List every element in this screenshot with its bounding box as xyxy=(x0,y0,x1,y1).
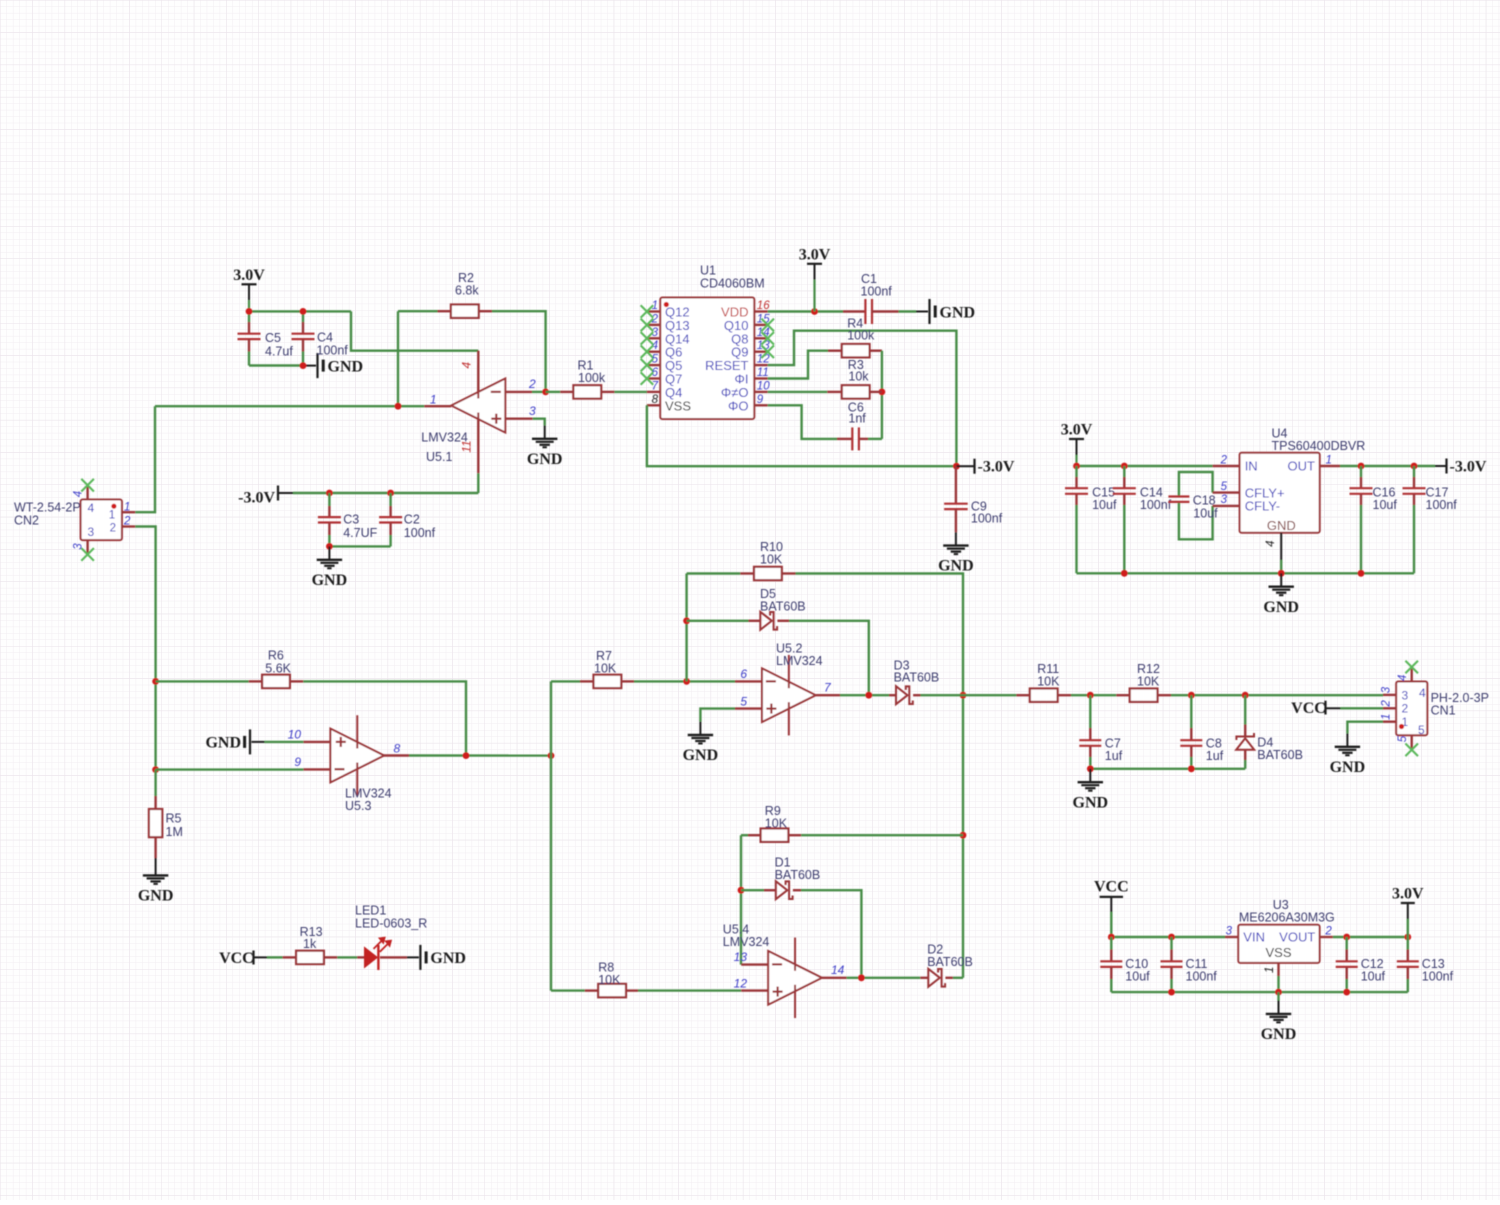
svg-text:100nf: 100nf xyxy=(1186,969,1218,983)
svg-text:VSS: VSS xyxy=(665,398,691,413)
svg-text:2: 2 xyxy=(1381,700,1393,708)
svg-text:2: 2 xyxy=(1220,454,1228,466)
svg-text:1M: 1M xyxy=(166,825,183,839)
svg-text:C3: C3 xyxy=(343,513,359,527)
svg-text:IN: IN xyxy=(1245,459,1258,474)
svg-text:C5: C5 xyxy=(265,331,281,345)
svg-text:1k: 1k xyxy=(303,937,317,951)
svg-text:-3.0V: -3.0V xyxy=(978,459,1015,476)
svg-text:C2: C2 xyxy=(404,513,420,527)
svg-text:BAT60B: BAT60B xyxy=(775,868,821,882)
svg-text:10uf: 10uf xyxy=(1092,498,1117,512)
svg-text:11: 11 xyxy=(757,367,769,379)
svg-text:8: 8 xyxy=(652,394,659,406)
svg-text:10K: 10K xyxy=(1137,674,1160,688)
svg-text:10K: 10K xyxy=(765,817,788,831)
svg-text:WT-2.54-2P: WT-2.54-2P xyxy=(14,501,81,515)
svg-text:100k: 100k xyxy=(847,329,875,343)
svg-text:GND: GND xyxy=(938,558,974,575)
svg-text:13: 13 xyxy=(734,950,748,964)
svg-text:4.7UF: 4.7UF xyxy=(343,526,377,540)
svg-text:16: 16 xyxy=(757,300,770,312)
svg-text:3: 3 xyxy=(73,543,85,550)
svg-text:ME6206A30M3G: ME6206A30M3G xyxy=(1239,911,1335,925)
svg-text:10uf: 10uf xyxy=(1373,498,1398,512)
svg-text:3.0V: 3.0V xyxy=(1061,422,1093,439)
svg-text:R6: R6 xyxy=(268,649,284,663)
svg-text:100nf: 100nf xyxy=(317,344,349,358)
svg-text:3: 3 xyxy=(1221,494,1228,506)
svg-text:10K: 10K xyxy=(598,973,621,987)
svg-text:-3.0V: -3.0V xyxy=(238,489,275,506)
svg-text:GND: GND xyxy=(1267,518,1296,533)
svg-text:1nf: 1nf xyxy=(848,411,866,425)
svg-text:10K: 10K xyxy=(760,553,783,567)
svg-text:100k: 100k xyxy=(578,371,606,385)
svg-text:BAT60B: BAT60B xyxy=(927,955,973,969)
svg-text:-3.0V: -3.0V xyxy=(1450,459,1487,476)
svg-text:C4: C4 xyxy=(317,331,333,345)
svg-text:10uf: 10uf xyxy=(1193,507,1218,521)
svg-text:2: 2 xyxy=(1402,702,1409,716)
svg-text:GND: GND xyxy=(328,358,364,375)
svg-text:VCC: VCC xyxy=(1094,879,1129,896)
svg-text:10K: 10K xyxy=(1037,674,1060,688)
svg-text:100nf: 100nf xyxy=(971,512,1003,526)
svg-text:U5.1: U5.1 xyxy=(426,450,452,464)
svg-text:100nf: 100nf xyxy=(404,526,436,540)
svg-text:3: 3 xyxy=(1402,688,1409,702)
svg-text:4.7uf: 4.7uf xyxy=(265,345,293,359)
svg-text:OUT: OUT xyxy=(1288,459,1316,474)
svg-text:1uf: 1uf xyxy=(1206,749,1224,763)
svg-text:VOUT: VOUT xyxy=(1279,929,1315,944)
svg-text:1: 1 xyxy=(1326,454,1332,466)
svg-text:1uf: 1uf xyxy=(1105,749,1123,763)
svg-text:10k: 10k xyxy=(848,370,869,384)
svg-text:GND: GND xyxy=(1263,599,1299,616)
svg-text:1: 1 xyxy=(1381,714,1393,720)
svg-text:TPS60400DBVR: TPS60400DBVR xyxy=(1272,439,1366,453)
svg-text:VCC: VCC xyxy=(1291,700,1326,717)
svg-text:CFLY-: CFLY- xyxy=(1245,499,1280,514)
svg-text:10uf: 10uf xyxy=(1125,969,1150,983)
svg-text:3.0V: 3.0V xyxy=(799,246,831,263)
svg-text:GND: GND xyxy=(683,747,719,764)
svg-text:LMV324: LMV324 xyxy=(723,935,770,949)
svg-text:3: 3 xyxy=(88,525,95,539)
svg-text:CN1: CN1 xyxy=(1431,703,1456,717)
svg-text:5: 5 xyxy=(1221,481,1228,493)
svg-text:4: 4 xyxy=(88,501,95,515)
svg-text:5: 5 xyxy=(1397,735,1409,742)
svg-text:GND: GND xyxy=(138,888,174,905)
svg-text:BAT60B: BAT60B xyxy=(894,671,940,685)
svg-text:2: 2 xyxy=(528,377,536,391)
svg-text:GND: GND xyxy=(527,451,563,468)
svg-text:U5.3: U5.3 xyxy=(345,799,371,813)
svg-text:LMV324: LMV324 xyxy=(776,654,823,668)
svg-text:7: 7 xyxy=(652,380,659,392)
svg-text:3: 3 xyxy=(529,404,536,418)
svg-text:4: 4 xyxy=(1419,686,1426,700)
svg-text:4: 4 xyxy=(460,362,474,369)
svg-text:C18: C18 xyxy=(1193,494,1216,508)
svg-text:1: 1 xyxy=(109,509,115,521)
svg-text:5: 5 xyxy=(1418,723,1425,737)
svg-text:R5: R5 xyxy=(166,812,182,826)
svg-text:GND: GND xyxy=(205,734,241,751)
svg-text:LED-0603_R: LED-0603_R xyxy=(355,916,427,930)
svg-text:VCC: VCC xyxy=(219,950,254,967)
svg-text:12: 12 xyxy=(734,977,748,991)
svg-text:GND: GND xyxy=(1330,759,1366,776)
svg-text:4: 4 xyxy=(1265,540,1277,546)
svg-text:ΦO: ΦO xyxy=(728,398,748,413)
svg-text:CN2: CN2 xyxy=(14,514,39,528)
svg-text:3.0V: 3.0V xyxy=(233,267,265,284)
svg-text:6: 6 xyxy=(740,667,747,681)
svg-text:10: 10 xyxy=(757,380,770,392)
svg-text:5: 5 xyxy=(740,694,747,708)
svg-text:GND: GND xyxy=(940,304,976,321)
svg-text:BAT60B: BAT60B xyxy=(1257,748,1303,762)
svg-text:100nf: 100nf xyxy=(1422,969,1454,983)
svg-text:9: 9 xyxy=(757,394,764,406)
svg-text:3: 3 xyxy=(1226,926,1233,938)
svg-text:GND: GND xyxy=(430,950,466,967)
svg-text:1: 1 xyxy=(430,393,437,407)
svg-text:2: 2 xyxy=(110,522,116,534)
svg-text:10K: 10K xyxy=(594,662,617,676)
svg-text:3.0V: 3.0V xyxy=(1392,886,1424,903)
svg-text:14: 14 xyxy=(831,963,845,977)
svg-text:100nf: 100nf xyxy=(1140,498,1172,512)
svg-text:1: 1 xyxy=(1264,967,1276,973)
svg-text:6.8k: 6.8k xyxy=(455,284,479,298)
svg-text:BAT60B: BAT60B xyxy=(760,599,806,613)
svg-text:3: 3 xyxy=(1381,686,1393,693)
svg-text:GND: GND xyxy=(1261,1026,1297,1043)
svg-text:8: 8 xyxy=(394,741,401,755)
svg-text:4: 4 xyxy=(73,491,85,497)
svg-text:10: 10 xyxy=(288,727,302,741)
svg-text:GND: GND xyxy=(1073,794,1109,811)
svg-text:10uf: 10uf xyxy=(1361,969,1386,983)
svg-text:4: 4 xyxy=(1397,675,1409,681)
svg-text:LMV324: LMV324 xyxy=(421,431,468,445)
svg-text:GND: GND xyxy=(312,572,348,589)
svg-text:100nf: 100nf xyxy=(861,284,893,298)
svg-text:VSS: VSS xyxy=(1265,945,1291,960)
svg-text:CD4060BM: CD4060BM xyxy=(700,276,765,290)
svg-text:5.6K: 5.6K xyxy=(265,662,291,676)
svg-text:9: 9 xyxy=(294,755,301,769)
svg-text:100nf: 100nf xyxy=(1426,498,1458,512)
svg-text:VIN: VIN xyxy=(1243,929,1265,944)
